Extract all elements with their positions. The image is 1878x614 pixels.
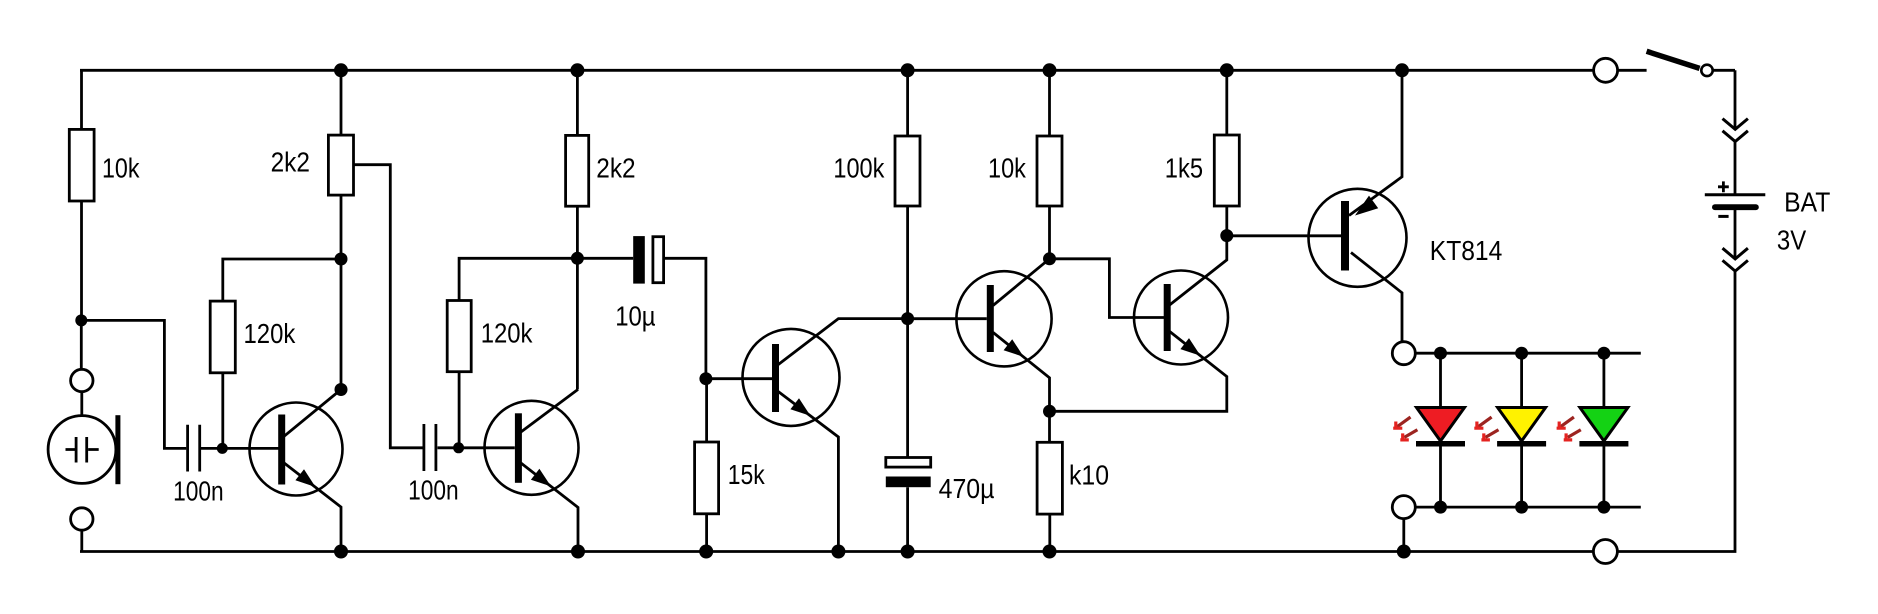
wire 120k-2 top lead to junction: [459, 258, 577, 300]
connector terminal ground rail right: [1593, 540, 1617, 564]
svg-text:10k: 10k: [988, 153, 1027, 184]
node ground rail junction x578: [571, 545, 585, 559]
transistor Q1 base bar: [278, 415, 285, 485]
transistor Q3 base bar: [772, 344, 779, 412]
wire C1 to Q1 base: [201, 447, 279, 450]
transistor Q5 base bar: [1164, 284, 1171, 351]
transistor Q4 base bar: [987, 285, 994, 352]
transistor Q5 circle: [1134, 271, 1228, 365]
switch SA1 lever: [1647, 51, 1700, 68]
node top rail junction x1402: [1395, 63, 1409, 77]
svg-text:120k: 120k: [244, 318, 297, 349]
capacitor C1 100n plates: [188, 425, 200, 472]
wire battery negative to ground rail: [1617, 271, 1736, 551]
svg-text:10k: 10k: [102, 153, 140, 184]
wire Q3 base: [706, 377, 772, 380]
resistor R7 100k body: [895, 136, 920, 206]
node Q5 collector junction: [1220, 229, 1233, 242]
wire 2k2 bottom to Q1 collector: [340, 195, 343, 389]
transistor Q5 collector lead: [1170, 236, 1227, 305]
resistor R2 120k body: [210, 301, 235, 373]
node ground rail junction x1049: [1043, 545, 1057, 559]
transistor Q3 emitter arrow: [790, 398, 810, 416]
transistor KT814 collector lead: [1351, 253, 1402, 342]
wire 100k bottom to 470u: [906, 206, 909, 458]
resistor R8 10k body: [1037, 136, 1062, 206]
svg-text:3V: 3V: [1777, 224, 1807, 255]
transistor Q4 emitter arrow: [1004, 339, 1024, 357]
node top rail junction x1049: [1043, 63, 1057, 77]
transistor Q5 emitter arrow: [1180, 338, 1200, 356]
transistor Q2 base bar: [515, 413, 522, 483]
mic terminal top circle: [71, 369, 93, 391]
resistor R6 15k body: [695, 442, 719, 514]
transistor Q2 collector lead: [521, 389, 578, 432]
connector chevron upper pair: [1723, 119, 1748, 142]
wire 120k bottom lead: [221, 373, 224, 445]
connector terminal LED cathode: [1392, 496, 1415, 519]
LED HL3 green: [1579, 347, 1628, 514]
wire top supply rail: [80, 69, 1594, 72]
wire input node to C1: [81, 320, 186, 448]
battery GB1 negative plate: [1715, 204, 1756, 210]
transistor Q4 circle: [956, 271, 1051, 366]
transistor Q3 circle: [743, 329, 840, 426]
transistor Q3 collector lead: [778, 319, 908, 365]
wire 2k2 top lead: [340, 70, 343, 135]
svg-text:100n: 100n: [173, 476, 224, 507]
wire 2k2 output tap to stage2: [354, 165, 423, 448]
resistor R10 1k5 body: [1214, 135, 1239, 206]
capacitor C2 100n plates: [424, 424, 436, 471]
wire 10k-2 bottom to Q4 collector: [1048, 206, 1051, 259]
battery plus sign: [1718, 181, 1729, 192]
switch SA1 contact circle: [1701, 65, 1712, 76]
LED HL1 red: [1416, 347, 1465, 514]
wire 120k top lead to collector column: [223, 259, 341, 301]
resistor R4 120k body: [447, 301, 471, 372]
connector terminal top rail right: [1594, 58, 1618, 82]
transistor Q4 collector lead: [993, 259, 1050, 306]
node 120k tap junction: [335, 253, 348, 266]
transistor Q3 emitter lead: [778, 391, 838, 551]
svg-text:1k5: 1k5: [1165, 152, 1203, 183]
node Q3 base junction: [699, 372, 712, 385]
wire terminal to switch: [1618, 69, 1647, 72]
wire Q4 base from Q3 collector node: [908, 317, 987, 320]
transistor Q1 emitter arrow: [295, 469, 315, 487]
wire C2 to Q2 base: [438, 446, 515, 449]
battery GB1 positive plate: [1705, 193, 1766, 196]
LED HL2 yellow: [1497, 347, 1546, 514]
node top rail junction x341: [334, 63, 348, 77]
connector terminal LED anode: [1392, 342, 1415, 365]
wire 10k bottom to mic node: [80, 201, 83, 320]
svg-text:100k: 100k: [833, 153, 885, 184]
wire chevron to battery: [1734, 142, 1737, 194]
node top rail junction x1227: [1220, 63, 1234, 77]
node ground rail junction x341: [334, 545, 348, 559]
capacitor C3 10u negative plate: [633, 236, 645, 284]
node ground rail junction x706: [699, 545, 713, 559]
transistor KT814 emitter lead: [1349, 70, 1402, 215]
node Q3 collector junction: [901, 312, 914, 325]
wire Q5 collector node to KT814 base: [1227, 234, 1341, 237]
svg-text:k10: k10: [1069, 460, 1109, 491]
wire LED anode rail: [1415, 352, 1641, 355]
node top rail junction x907: [901, 63, 915, 77]
node top rail junction x577: [570, 63, 584, 77]
wire mic bottom to ground rail: [80, 530, 83, 551]
node mic/input junction: [75, 314, 87, 326]
microphone BM1 body: [48, 416, 116, 484]
wire 1k5 bottom to Q5 collector node: [1225, 206, 1228, 236]
wire 100k top lead: [906, 70, 909, 136]
wire k10 top lead: [1048, 411, 1051, 442]
resistor R3 2k2 body: [328, 135, 353, 195]
wire left column top: [80, 71, 83, 129]
node emitter/k10 junction: [1043, 405, 1056, 418]
transistor VT6 KT814 circle: [1309, 189, 1407, 287]
mic terminal bottom circle: [71, 508, 93, 530]
wire node to mic terminal: [80, 320, 83, 369]
transistor KT814 base bar: [1341, 201, 1349, 271]
resistor R1 10k body: [69, 129, 94, 201]
resistor R9 k10 body: [1037, 442, 1062, 514]
wire switch to battery column: [1713, 70, 1735, 128]
node Q1 base junction: [217, 443, 228, 454]
transistor Q1 circle: [250, 403, 343, 496]
node ground rail junction x1404: [1397, 545, 1411, 559]
node Q2 base junction: [453, 442, 464, 453]
capacitor C4 470u positive plate: [886, 458, 931, 468]
svg-text:470µ: 470µ: [939, 473, 995, 504]
wire 15k top lead: [705, 379, 708, 442]
connector chevron lower pair: [1723, 248, 1748, 271]
wire mic terminal to mic body: [80, 392, 83, 416]
wire 1k5 top lead: [1225, 70, 1228, 135]
node Q1 collector junction: [335, 383, 348, 396]
wire 120k-2 bottom lead: [458, 372, 461, 444]
transistor Q2 circle: [485, 401, 579, 495]
svg-text:100n: 100n: [408, 475, 459, 506]
microphone membrane bar: [115, 415, 120, 484]
wire 2k2-2 top lead: [576, 70, 579, 135]
node ground rail junction x838: [831, 545, 845, 559]
transistor Q1 emitter lead: [284, 463, 341, 552]
wire Q4 collector to Q5 base: [1050, 259, 1165, 318]
transistor Q2 emitter lead: [521, 463, 578, 552]
wire bottom ground rail: [80, 550, 1593, 553]
resistor R5 2k2 body: [566, 135, 589, 206]
svg-text:10µ: 10µ: [615, 300, 655, 331]
transistor Q1 collector lead: [284, 390, 341, 437]
wire 2k2-2 bottom to Q2 collector: [576, 206, 579, 389]
capacitor C4 470u negative plate: [886, 477, 931, 488]
svg-text:120k: 120k: [481, 318, 534, 349]
svg-text:2k2: 2k2: [271, 146, 310, 177]
svg-text:2k2: 2k2: [596, 152, 635, 183]
LED HL1 emission arrows: [1393, 417, 1417, 440]
wire 10k-2 top lead: [1048, 70, 1051, 136]
node Q4 collector junction: [1043, 252, 1056, 265]
svg-text:BAT: BAT: [1784, 187, 1830, 218]
wire 15k bottom lead: [705, 514, 708, 552]
wire battery to lower chevron: [1734, 210, 1737, 258]
wire C3 to Q3 base node: [664, 258, 706, 378]
LED HL3 emission arrows: [1557, 417, 1581, 440]
battery minus sign: [1718, 215, 1728, 218]
wire junction to C3: [577, 257, 633, 260]
svg-text:KT814: KT814: [1430, 235, 1503, 266]
microphone internal capacitor symbol: [66, 437, 99, 463]
transistor Q4 emitter lead: [993, 332, 1050, 411]
transistor Q2 emitter arrow: [531, 469, 551, 487]
svg-text:15k: 15k: [728, 459, 766, 490]
LED HL2 emission arrows: [1474, 417, 1498, 440]
node ground rail junction x908: [901, 545, 915, 559]
node stage2 output junction: [571, 252, 584, 265]
transistor KT814 emitter arrow (PNP): [1355, 196, 1378, 216]
wire k10 bottom lead: [1048, 514, 1051, 551]
transistor Q5 emitter lead: [1050, 332, 1227, 412]
capacitor C3 10u positive plate: [653, 237, 664, 283]
wire LED cathode rail: [1415, 506, 1641, 509]
wire cathode terminal to ground rail: [1402, 519, 1405, 552]
wire 470u bottom lead: [906, 487, 909, 551]
